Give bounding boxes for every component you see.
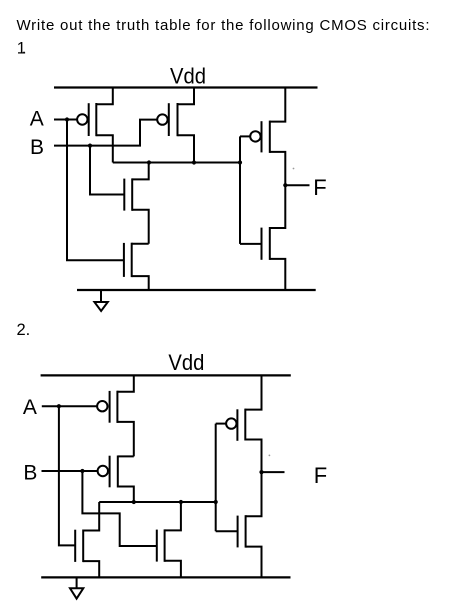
svg-text:F: F [313,175,326,200]
svg-text:F: F [314,463,327,488]
svg-text:B: B [30,136,44,159]
svg-text:.: . [22,40,27,58]
svg-text:2.: 2. [17,321,31,339]
svg-text:Write out the truth table for: Write out the truth table for the follow… [17,17,430,34]
svg-text:B: B [23,462,37,485]
svg-text:A: A [23,396,37,419]
svg-text:A: A [30,108,44,131]
svg-text:Vdd: Vdd [170,63,206,88]
svg-text:Vdd: Vdd [168,350,204,375]
